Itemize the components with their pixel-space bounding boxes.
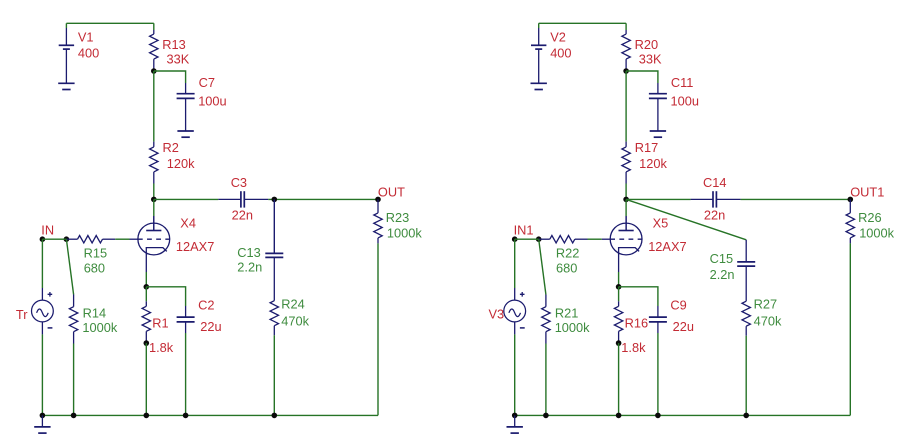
source Tr plus <box>48 292 53 297</box>
triode X4 plate <box>146 216 161 231</box>
wire <box>539 239 546 294</box>
label X5 <box>653 216 669 231</box>
junction below R16 <box>616 340 622 346</box>
wire <box>741 198 851 200</box>
label R16 <box>625 315 648 330</box>
svg-text:R22: R22 <box>556 246 579 261</box>
rail junction <box>144 413 150 419</box>
label 1000k <box>387 226 422 241</box>
svg-text:R21: R21 <box>555 306 578 321</box>
svg-text:R15: R15 <box>84 246 107 261</box>
svg-text:22u: 22u <box>200 319 221 334</box>
wire <box>273 335 275 415</box>
label R17 <box>635 140 658 155</box>
label 22n <box>704 207 725 222</box>
wire <box>657 333 659 415</box>
source V3 <box>504 300 526 322</box>
svg-text:22n: 22n <box>232 207 253 222</box>
wire <box>745 336 747 416</box>
ground below V2 <box>531 83 547 89</box>
svg-text:X4: X4 <box>180 216 196 231</box>
label R21 <box>555 306 578 321</box>
wire <box>73 344 75 416</box>
label 22u <box>673 319 694 334</box>
wire <box>377 243 379 415</box>
wire <box>153 184 155 200</box>
svg-text:1000k: 1000k <box>859 226 894 241</box>
resistor R2 <box>150 142 158 184</box>
svg-text:400: 400 <box>550 45 571 60</box>
svg-text:22u: 22u <box>673 319 694 334</box>
wire <box>515 414 851 416</box>
capacitor C11 <box>649 83 667 131</box>
label 2.2n <box>237 260 262 275</box>
wire <box>41 239 43 288</box>
svg-text:R1: R1 <box>152 315 168 330</box>
source Tr minus <box>48 327 53 329</box>
label 1.8k <box>149 340 174 355</box>
capacitor C14 <box>691 191 741 207</box>
node IN dot <box>40 236 46 242</box>
label 120k <box>639 156 667 171</box>
triode X4 grid <box>138 238 170 240</box>
label X4 <box>180 216 196 231</box>
wire <box>65 23 67 28</box>
svg-text:120k: 120k <box>639 156 667 171</box>
junction C13 tap <box>272 197 278 203</box>
label 22u <box>200 319 221 334</box>
svg-text:IN: IN <box>41 223 54 238</box>
source Tr lead <box>41 322 43 335</box>
wire <box>588 238 602 240</box>
svg-text:C11: C11 <box>671 75 694 90</box>
svg-text:C13: C13 <box>237 245 260 260</box>
label 470k <box>754 313 782 328</box>
wire <box>145 343 147 415</box>
svg-text:R20: R20 <box>635 37 658 52</box>
label C11 <box>671 75 694 90</box>
wire <box>625 23 627 30</box>
svg-text:IN1: IN1 <box>514 223 534 238</box>
wire <box>41 334 43 415</box>
svg-text:Tr: Tr <box>16 307 28 322</box>
resistor R27 <box>742 301 750 336</box>
svg-text:C14: C14 <box>703 175 726 190</box>
wire <box>625 216 627 231</box>
wire <box>154 71 186 83</box>
svg-text:R23: R23 <box>386 210 409 225</box>
source V3 lead <box>514 288 516 300</box>
wire <box>115 238 129 240</box>
resistor R21 <box>542 295 550 344</box>
label 100u <box>671 94 699 109</box>
node OUT1 <box>848 197 854 203</box>
battery V2 <box>531 28 546 83</box>
rail junction <box>743 413 749 419</box>
label OUT <box>378 184 405 199</box>
capacitor C7 <box>177 83 195 131</box>
label R14 <box>83 306 106 321</box>
wire <box>626 71 658 83</box>
svg-text:R24: R24 <box>281 297 304 312</box>
svg-text:C3: C3 <box>231 175 247 190</box>
svg-text:680: 680 <box>84 260 105 275</box>
wire <box>268 198 378 200</box>
wire cathode lead <box>618 272 620 287</box>
junction at R20 bottom <box>623 68 629 74</box>
svg-text:C7: C7 <box>199 75 215 90</box>
wire <box>185 333 187 415</box>
wire <box>849 243 851 415</box>
ground below C11 <box>650 131 666 137</box>
wire <box>66 239 73 294</box>
svg-text:C9: C9 <box>670 298 686 313</box>
resistor R14 <box>69 295 77 344</box>
triode X5 plate <box>619 216 634 231</box>
label 1.8k <box>621 340 646 355</box>
source Tr lead <box>41 288 43 300</box>
label OUT1 <box>850 184 884 199</box>
junction at R13 bottom <box>151 68 157 74</box>
junction cathode node <box>144 284 150 290</box>
svg-text:R13: R13 <box>162 37 185 52</box>
label 120k <box>167 156 195 171</box>
wire <box>42 414 378 416</box>
wire <box>146 287 185 306</box>
source Tr <box>32 300 54 322</box>
label 12AX7 <box>176 239 214 254</box>
svg-text:R17: R17 <box>635 140 658 155</box>
wire <box>626 198 691 200</box>
junction below R1 <box>144 340 150 346</box>
label 33K <box>639 51 662 66</box>
capacitor C2 <box>177 306 195 333</box>
wire <box>153 23 155 30</box>
junction anode node <box>623 197 629 203</box>
capacitor C3 <box>218 191 268 207</box>
junction anode node <box>151 197 157 203</box>
triode X5 grid <box>610 238 642 240</box>
label R13 <box>162 37 185 52</box>
label 12AX7 <box>648 239 686 254</box>
wire <box>273 199 275 253</box>
svg-text:1.8k: 1.8k <box>621 340 646 355</box>
source V3 plus <box>520 292 525 297</box>
label 680 <box>556 260 577 275</box>
svg-text:2.2n: 2.2n <box>710 267 735 282</box>
resistor R16 <box>614 301 622 343</box>
rail junction <box>183 413 189 419</box>
label R24 <box>281 297 304 312</box>
svg-text:12AX7: 12AX7 <box>176 239 214 254</box>
wire cathode lead <box>145 272 147 287</box>
ground below C7 <box>177 131 193 137</box>
svg-text:100u: 100u <box>198 94 226 109</box>
label R1 <box>152 315 168 330</box>
label IN <box>41 223 54 238</box>
svg-text:22n: 22n <box>704 207 725 222</box>
resistor R24 <box>270 301 278 336</box>
label 400 <box>550 45 571 60</box>
label C3 <box>231 175 247 190</box>
wire <box>514 239 516 288</box>
svg-text:33K: 33K <box>639 51 662 66</box>
rail junction <box>616 413 622 419</box>
svg-text:470k: 470k <box>281 313 309 328</box>
ground below V1 <box>58 83 74 89</box>
svg-text:R27: R27 <box>754 297 777 312</box>
svg-text:1000k: 1000k <box>82 320 117 335</box>
rail junction <box>40 413 46 419</box>
label V3 <box>489 307 505 322</box>
junction cathode node <box>616 284 622 290</box>
junction IN right dot <box>64 236 70 242</box>
svg-text:33K: 33K <box>167 51 190 66</box>
svg-text:400: 400 <box>78 45 99 60</box>
resistor R15 <box>66 236 115 243</box>
rail junction <box>655 413 661 419</box>
resistor R22 <box>539 236 588 243</box>
resistor R1 <box>142 301 150 343</box>
wire <box>154 198 219 200</box>
svg-text:V3: V3 <box>489 307 505 322</box>
battery V1 <box>59 28 74 83</box>
label 470k <box>281 313 309 328</box>
label V1 <box>78 29 94 44</box>
source V3 lead <box>514 322 516 335</box>
triode X4 cathode <box>146 248 167 272</box>
svg-text:V1: V1 <box>78 29 94 44</box>
svg-text:120k: 120k <box>167 156 195 171</box>
svg-text:1000k: 1000k <box>387 226 422 241</box>
label 100u <box>198 94 226 109</box>
svg-text:R26: R26 <box>858 210 881 225</box>
wire grid stub <box>130 238 138 240</box>
wire <box>618 287 620 302</box>
resistor R13 <box>150 30 158 71</box>
svg-text:C15: C15 <box>710 251 733 266</box>
label C15 <box>710 251 733 266</box>
svg-text:OUT1: OUT1 <box>850 184 884 199</box>
svg-text:2.2n: 2.2n <box>237 260 262 275</box>
wire <box>153 216 155 231</box>
label R23 <box>386 210 409 225</box>
wire grid stub <box>602 238 610 240</box>
capacitor C9 <box>649 306 667 333</box>
label V2 <box>550 29 566 44</box>
node OUT <box>375 197 381 203</box>
svg-text:R16: R16 <box>625 315 648 330</box>
wire <box>625 199 627 216</box>
rail junction <box>512 413 518 419</box>
label 2.2n <box>710 267 735 282</box>
svg-text:1000k: 1000k <box>555 320 590 335</box>
triode X4 envelope <box>138 223 170 255</box>
wire <box>545 344 547 416</box>
wire <box>515 238 539 240</box>
wire <box>618 343 620 415</box>
label 1000k <box>859 226 894 241</box>
wire <box>514 334 516 415</box>
label 400 <box>78 45 99 60</box>
svg-text:1.8k: 1.8k <box>149 340 174 355</box>
triode X5 envelope <box>610 223 642 255</box>
label 33K <box>167 51 190 66</box>
rail junction <box>272 413 278 419</box>
label R15 <box>84 246 107 261</box>
resistor R20 <box>622 30 630 71</box>
ground rail <box>34 415 50 433</box>
svg-text:470k: 470k <box>754 313 782 328</box>
source V3 minus <box>520 327 525 329</box>
rail junction <box>543 413 549 419</box>
svg-text:C2: C2 <box>198 298 214 313</box>
wire <box>626 199 746 239</box>
label 22n <box>232 207 253 222</box>
svg-text:680: 680 <box>556 260 577 275</box>
triode X5 cathode <box>619 248 640 272</box>
svg-text:R14: R14 <box>83 306 106 321</box>
label R26 <box>858 210 881 225</box>
label R27 <box>754 297 777 312</box>
svg-text:OUT: OUT <box>378 184 405 199</box>
label C2 <box>198 298 214 313</box>
wire <box>625 71 627 142</box>
label 1000k <box>82 320 117 335</box>
label IN1 <box>514 223 534 238</box>
label C14 <box>703 175 726 190</box>
label C9 <box>670 298 686 313</box>
node IN1 dot <box>512 236 518 242</box>
rail junction <box>71 413 77 419</box>
capacitor C13 <box>265 253 283 300</box>
wire <box>153 199 155 216</box>
label Tr <box>16 307 28 322</box>
resistor R17 <box>622 142 630 184</box>
capacitor C15 <box>737 240 755 301</box>
svg-text:100u: 100u <box>671 94 699 109</box>
svg-text:R2: R2 <box>163 140 179 155</box>
wire <box>145 287 147 302</box>
resistor R23 <box>374 199 382 243</box>
junction IN1 right dot <box>536 236 542 242</box>
wire <box>538 23 540 28</box>
wire <box>42 238 66 240</box>
wire <box>153 71 155 142</box>
ground rail <box>507 415 523 433</box>
label C7 <box>199 75 215 90</box>
svg-text:12AX7: 12AX7 <box>648 239 686 254</box>
svg-text:V2: V2 <box>550 29 566 44</box>
label R20 <box>635 37 658 52</box>
label C13 <box>237 245 260 260</box>
resistor R26 <box>846 199 854 243</box>
label 1000k <box>555 320 590 335</box>
label R2 <box>163 140 179 155</box>
svg-text:X5: X5 <box>653 216 669 231</box>
wire <box>66 22 153 24</box>
label R22 <box>556 246 579 261</box>
wire <box>539 22 626 24</box>
label 680 <box>84 260 105 275</box>
wire <box>625 184 627 200</box>
wire <box>619 287 658 306</box>
